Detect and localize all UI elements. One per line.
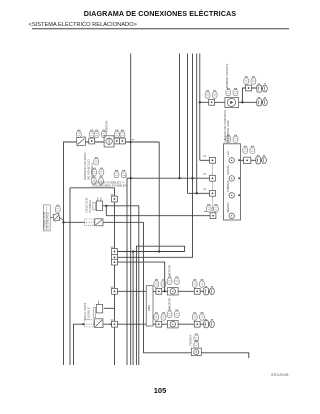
svg-text:MEDIDOR UNIF: MEDIDOR UNIF: [226, 120, 230, 143]
row1 right pin glyphs: [192, 280, 204, 288]
svg-text:TIMBRE ADVERT: TIMBRE ADVERT: [225, 64, 229, 89]
relay comp top (coil): [96, 201, 102, 211]
left cluster pin a: [89, 138, 95, 144]
left cluster component (sensor): [104, 136, 114, 147]
pin1: [210, 157, 216, 163]
middle label box: [43, 205, 50, 231]
unit symbol row4: [229, 213, 234, 218]
relay box left edge: [69, 188, 71, 365]
label box inner line: [46, 206, 48, 230]
top cluster diode component: [225, 97, 239, 107]
wire number ticks: [111, 139, 207, 320]
bottom cluster diagonal box: [95, 319, 103, 328]
relay fuse strip: [93, 203, 95, 211]
bottom coil stub: [98, 301, 100, 305]
row2 left pin glyphs: [154, 313, 166, 321]
svg-text:MEDID: MEDID: [226, 202, 230, 213]
row1 motor: [168, 288, 179, 295]
wire V3 x=192.5 with jog to x=140: [115, 54, 193, 258]
svg-text:SENAL: SENAL: [226, 165, 230, 175]
big control box: [223, 144, 240, 220]
left cluster glyph 5: [120, 130, 125, 138]
wire V2 x=187.5: [187, 54, 189, 194]
below cluster glyphs b: [114, 170, 126, 178]
svg-text:TIERRA: TIERRA: [189, 334, 193, 346]
tiny rotated labels: [43, 64, 231, 346]
big box out glyphs: [243, 146, 255, 154]
left cluster pin c: [120, 138, 126, 144]
svg-text:LUZ: LUZ: [226, 151, 230, 157]
bottom cluster dashed box: [85, 320, 94, 327]
left cluster glyph 4: [114, 130, 119, 138]
relay drop: [105, 206, 107, 216]
wire y=215.7 to pin4: [106, 215, 210, 217]
dots in fuse box: [86, 222, 92, 223]
switch feed wire y=222.3: [63, 221, 144, 223]
left cluster glyph 3: [94, 130, 106, 138]
unit symbol row1: [229, 158, 234, 163]
unit symbol row3: [229, 193, 234, 198]
wire x=143.5 down to ground wire: [144, 222, 249, 358]
row1 wire y=291.3: [115, 290, 205, 292]
wire V1 x=179.5: [179, 54, 181, 179]
wire H1 from below corner: [136, 246, 184, 365]
header rule: [32, 28, 289, 29]
relay diagonal box: [95, 219, 103, 226]
wire H2 to edge pin: [115, 251, 185, 253]
node bus/left wire: [130, 141, 132, 143]
row2 cpair: [204, 319, 215, 328]
row1 left pin glyphs: [154, 280, 166, 288]
big box top glyphs: [226, 135, 238, 143]
relay box top edge: [70, 187, 115, 189]
bottom cluster wire y=323.4: [74, 324, 115, 365]
big box out pin: [244, 157, 251, 163]
ground component: [191, 348, 201, 356]
wire y=193.3 to pin3: [188, 192, 210, 194]
node motor feed: [164, 290, 166, 292]
relay dashed fuse box: [85, 219, 95, 226]
row1 left pin: [156, 288, 162, 294]
node wire A at H2: [158, 250, 160, 252]
pin3: [210, 190, 216, 196]
relay coil stubs: [97, 197, 99, 201]
big box right output wire: [241, 159, 256, 161]
subtitle: [29, 22, 137, 28]
relay edge pin b: [112, 249, 118, 255]
drawing code: [271, 373, 289, 377]
unit symbol row2: [229, 176, 234, 181]
node: [111, 323, 113, 325]
node V4 end: [196, 192, 198, 194]
left cluster pin b: [114, 138, 120, 144]
page number 105: [140, 386, 180, 395]
svg-text:CONSOLA: CONSOLA: [90, 162, 94, 178]
node bus crossing: [130, 177, 132, 179]
relay edge pin e: [112, 321, 118, 327]
bottom cluster upper wire: [104, 307, 115, 309]
box circles: [229, 158, 234, 219]
wire V4 x=196.7: [196, 54, 198, 194]
svg-text:DE ENLACE: DE ENLACE: [46, 212, 50, 230]
ground glyph lower: [194, 341, 199, 349]
row1 motor glyphs: [167, 277, 179, 285]
node V1 end: [178, 177, 180, 179]
below cluster glyph single: [94, 158, 99, 166]
top cluster wire y=102.3: [200, 101, 258, 103]
pin4: [210, 213, 216, 219]
big box out cpair: [256, 155, 266, 164]
row1 right pin: [194, 288, 200, 294]
top cluster diode glyphs: [226, 88, 238, 96]
top cluster pin: [209, 99, 215, 105]
relay out wire y=205.8: [103, 206, 139, 365]
row2 wire y=324.2: [115, 323, 205, 325]
left cluster glyph 1: [76, 130, 81, 138]
svg-text:M66: M66: [147, 305, 151, 311]
svg-text:MOTOR: MOTOR: [168, 297, 172, 309]
relay edge pin d: [112, 288, 118, 294]
title: [0, 9, 320, 18]
gray connector line big box pins: [212, 158, 214, 219]
wire y=160.3 to pin1: [200, 159, 210, 161]
branch node: [241, 101, 243, 103]
row2 left pin: [156, 321, 162, 327]
node: [82, 323, 84, 325]
wire A jog: [158, 142, 160, 252]
node at bus: [62, 221, 64, 223]
label box lead: [50, 216, 53, 218]
node relay out: [105, 205, 107, 207]
svg-text:TIMBRE: TIMBRE: [226, 180, 230, 192]
svg-text:MOTOR: MOTOR: [168, 264, 172, 276]
pin4 glyphs: [206, 204, 218, 212]
dots in bottom fuse box: [86, 324, 92, 325]
motor feed wire y=262.1: [115, 262, 165, 291]
row1 cpair: [204, 286, 215, 295]
left cluster glyph 2: [89, 130, 94, 138]
svg-text:INTERR.: INTERR.: [105, 120, 109, 133]
ground glyph upper: [194, 334, 199, 342]
bottom fuse strip: [93, 308, 95, 318]
wire y=178.2 to pin2: [127, 178, 210, 365]
branch up wire: [242, 88, 257, 102]
row2 right pin glyphs: [192, 313, 204, 321]
row2 motor glyphs: [167, 310, 179, 318]
top cluster pin glyphs: [205, 91, 217, 99]
row2 motor: [168, 321, 179, 328]
relay edge pin c: [112, 254, 118, 260]
svg-text:ESLABONES FUSIBLES: ESLABONES FUSIBLES: [93, 184, 128, 188]
relay box right edge: [114, 188, 116, 365]
bottom right strip connector: [146, 286, 153, 326]
wire V5 x=199.8: [199, 54, 201, 161]
left cluster switch: [77, 137, 86, 146]
node V3 crossing: [191, 177, 193, 179]
middle switch glyph: [55, 205, 60, 213]
below cluster glyphs a: [92, 168, 104, 176]
node on V5: [199, 101, 201, 103]
pin2: [210, 175, 216, 181]
below cluster glyphs a2: [91, 177, 103, 185]
bottom cluster coil box: [96, 305, 102, 313]
relay edge pin a: [112, 196, 118, 202]
middle switch: [53, 214, 63, 222]
svg-text:FUSIBLE: FUSIBLE: [88, 200, 92, 213]
drop x=133.1: [132, 252, 134, 366]
row2 right pin: [194, 321, 200, 327]
top cluster branch pin: [246, 85, 252, 91]
inner right ticks: [238, 159, 240, 161]
node drop: [132, 250, 134, 252]
top cluster cpair lower: [257, 97, 268, 106]
left cluster main wire y=142: [64, 142, 160, 365]
top cluster cpair upper: [257, 83, 268, 92]
bus B1 x=130.7: [130, 54, 132, 366]
relay edge pin c2: [112, 259, 118, 265]
svg-text:FUSIBLE: FUSIBLE: [87, 307, 91, 320]
top branch glyphs: [244, 77, 256, 85]
